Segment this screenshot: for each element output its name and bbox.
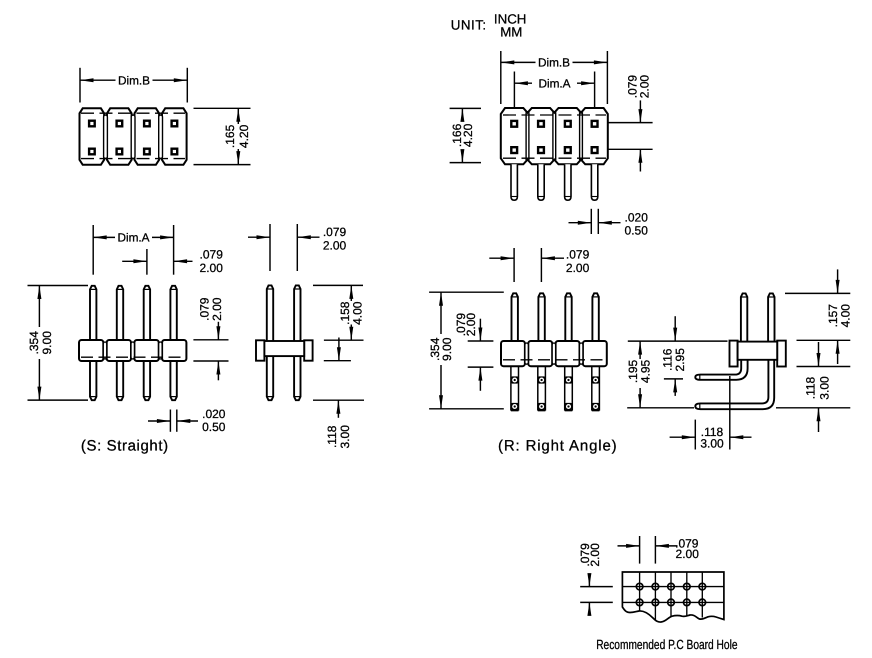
svg-text:3.00: 3.00 xyxy=(700,437,724,451)
dimension Dim.B view1 xyxy=(79,68,81,103)
dimension Dim.A view2 xyxy=(92,225,94,275)
svg-text:.118: .118 xyxy=(804,376,818,399)
view6 board outline xyxy=(622,572,724,622)
svg-text:2.00: 2.00 xyxy=(200,261,224,275)
dimension .079 / 2.00 row pitch view3 xyxy=(608,122,653,124)
view3 solder pins below body xyxy=(511,164,517,200)
svg-text:4.20: 4.20 xyxy=(237,124,251,148)
dimension .079 / 2.00 body height view2 xyxy=(193,339,228,341)
svg-text:2.00: 2.00 xyxy=(588,543,602,567)
dimension .079 / 2.00 body height view4 xyxy=(468,340,494,342)
dimension .079 / 2.00 pitch view4 xyxy=(513,248,515,282)
svg-text:2.00: 2.00 xyxy=(638,75,652,99)
svg-text:9.00: 9.00 xyxy=(440,337,454,361)
dimension .079 / 2.00 view6 left xyxy=(580,586,613,588)
dimension .020 / 0.50 view3 xyxy=(590,209,592,234)
view2 straight pins xyxy=(90,286,96,400)
view5 body side xyxy=(730,341,738,367)
dimension .079 / 2.00 view6 top xyxy=(639,536,641,564)
dimension .118 / 3.00 view5 right xyxy=(797,366,851,368)
svg-text:3.00: 3.00 xyxy=(338,425,352,449)
view3 body outline xyxy=(501,108,608,164)
dimension .118 / 3.00 view2b xyxy=(324,360,351,362)
svg-text:2.00: 2.00 xyxy=(210,297,224,321)
view1 hidden dashed lines xyxy=(81,112,185,114)
svg-text:Dim.B: Dim.B xyxy=(538,56,570,70)
dimension .020 / 0.50 view2 xyxy=(169,410,171,432)
view1 contact pins 2x4 xyxy=(88,120,96,128)
svg-text:.079: .079 xyxy=(566,248,590,262)
svg-text:2.95: 2.95 xyxy=(673,348,687,372)
view6 grid row lines xyxy=(622,586,724,588)
dimension .118 / 3.00 view5 bottom xyxy=(694,420,696,450)
view6 holes xyxy=(636,583,643,590)
svg-text:2.00: 2.00 xyxy=(566,261,590,275)
svg-text:(S: Straight): (S: Straight) xyxy=(81,437,169,454)
dimension .116 / 2.95 view5 xyxy=(664,378,683,380)
view2 segment joints xyxy=(103,342,106,359)
dimension .166 / 4.20 view3 xyxy=(450,107,481,109)
view4 vertical pins xyxy=(512,293,518,352)
view1 segment joints xyxy=(104,115,108,159)
svg-text:4.00: 4.00 xyxy=(839,304,853,328)
dimension Dim.A view3 xyxy=(513,72,515,108)
svg-text:4.20: 4.20 xyxy=(461,123,475,147)
dimension .158 / 4.00 view2b xyxy=(313,284,363,286)
view2 hidden dashed line xyxy=(81,356,185,358)
view3 hidden dashed lines xyxy=(503,114,606,116)
dimension .157 / 4.00 view5 xyxy=(785,292,850,294)
dimension Dim.B view3 xyxy=(500,51,502,104)
view2b side pins xyxy=(267,285,273,400)
svg-text:.020: .020 xyxy=(202,407,226,421)
view5 bent pin lower xyxy=(695,352,774,409)
view4 bent pin cross-sections xyxy=(511,376,518,383)
svg-text:2.00: 2.00 xyxy=(464,313,478,337)
svg-text:4.00: 4.00 xyxy=(351,301,365,325)
view4 body segments xyxy=(501,341,525,366)
view4 segment joints xyxy=(525,343,528,364)
view5 vertical pins xyxy=(741,293,747,352)
svg-text:.079: .079 xyxy=(323,225,347,239)
view2 body segments xyxy=(79,340,103,361)
dimension .079 / 2.00 pin pitch view2 xyxy=(146,249,148,275)
dimension .354 / 9.00 view4 xyxy=(429,291,504,293)
svg-text:Recommended P.C Board Hole: Recommended P.C Board Hole xyxy=(596,637,737,652)
dimension .195 / 4.95 view5 xyxy=(628,340,728,342)
svg-text:.165: .165 xyxy=(223,124,237,148)
svg-text:0.50: 0.50 xyxy=(625,224,649,238)
view5 bent pin upper xyxy=(695,352,747,380)
svg-text:Dim.B: Dim.B xyxy=(118,73,150,87)
svg-text:2.00: 2.00 xyxy=(323,238,347,252)
svg-text:Dim.A: Dim.A xyxy=(538,76,570,90)
svg-text:MM: MM xyxy=(500,25,522,40)
svg-text:(R: Right Angle): (R: Right Angle) xyxy=(498,438,617,455)
svg-text:9.00: 9.00 xyxy=(40,331,54,355)
svg-text:3.00: 3.00 xyxy=(818,376,832,400)
view3 segment joints xyxy=(525,112,527,160)
svg-text:0.50: 0.50 xyxy=(202,420,226,434)
dimension .079 / 2.00 row pitch view2b xyxy=(269,224,271,271)
svg-text:.079: .079 xyxy=(200,248,224,262)
view6 grid column lines xyxy=(639,572,641,612)
svg-text:Dim.A: Dim.A xyxy=(117,231,149,245)
svg-text:4.95: 4.95 xyxy=(639,359,653,383)
view4 hidden dashed line xyxy=(503,359,605,361)
dimension .165 / 4.20 view1 xyxy=(194,107,251,109)
svg-text:2.00: 2.00 xyxy=(676,547,700,561)
svg-text:UNIT:: UNIT: xyxy=(451,17,487,32)
dimension .354 / 9.00 view2 xyxy=(28,285,89,287)
view3 contact pins 2x4 xyxy=(510,120,518,128)
svg-text:.020: .020 xyxy=(625,211,649,225)
view4 bent pin channels xyxy=(510,366,512,410)
view2b body side xyxy=(256,340,264,360)
view1 body segments xyxy=(80,108,105,165)
